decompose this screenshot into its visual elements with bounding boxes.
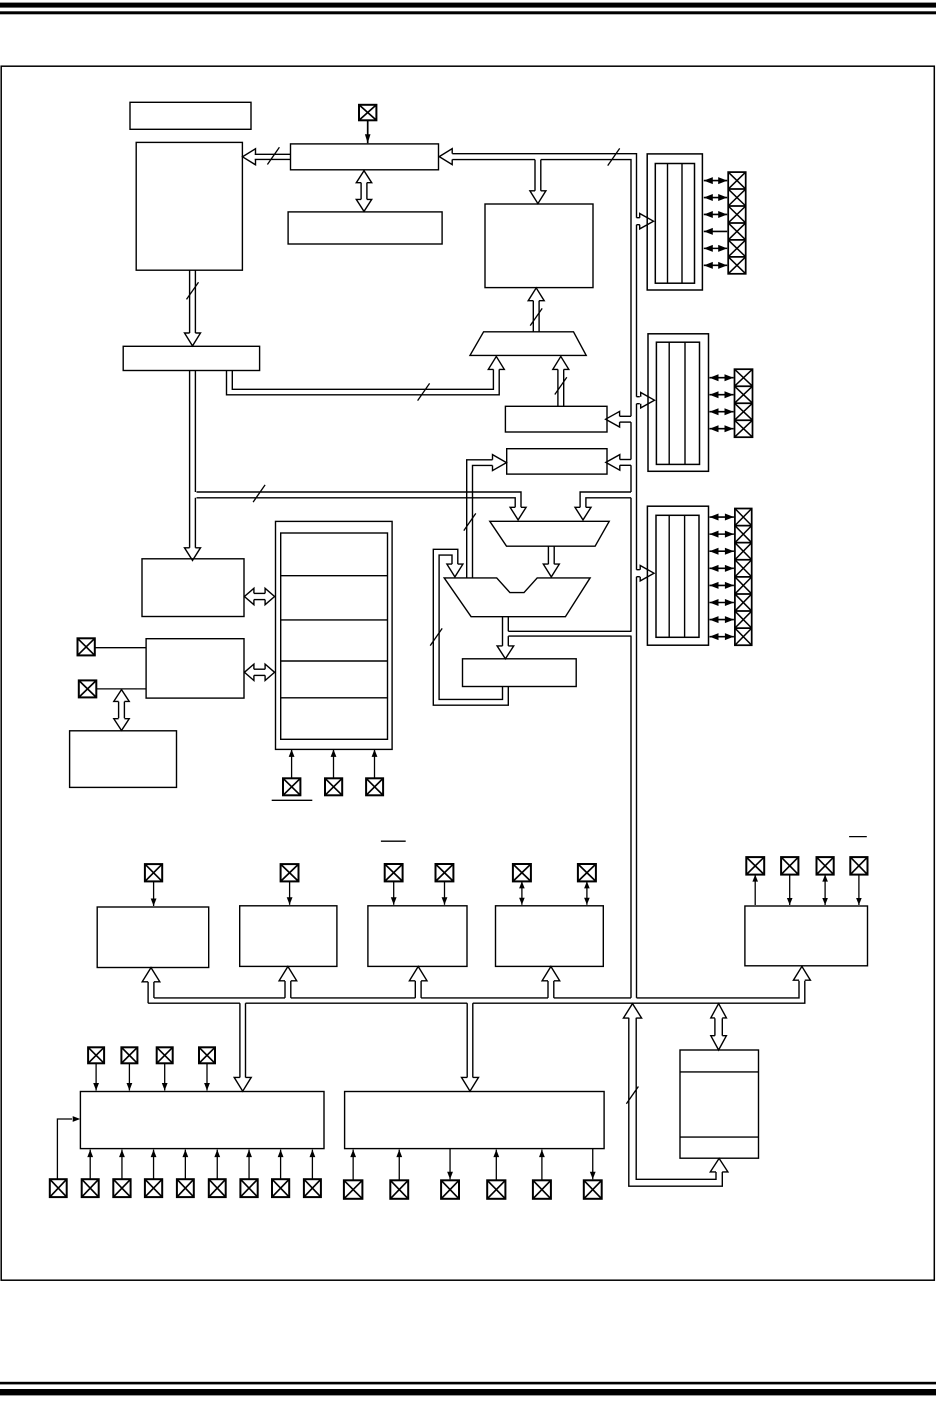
wire T1CKI pin to Timer1 — [289, 881, 291, 904]
pin below PSP 5 — [533, 1180, 551, 1199]
wire pin below PSP 4 to box (input) — [495, 1150, 497, 1181]
A/D internal divider bottom — [680, 1136, 759, 1138]
wire pin below SSP 6 to box — [248, 1150, 250, 1180]
pin below PSP 2 — [390, 1180, 408, 1199]
Timer2 / CCP box — [368, 906, 467, 967]
wire box to pin below PSP 3 (output) — [449, 1149, 451, 1180]
wire data bus into port C — [637, 569, 640, 571]
wire ALU output to data bus — [508, 630, 631, 632]
A/D result return path to data bus — [629, 1018, 723, 1186]
synchronous serial port box — [80, 1092, 324, 1149]
bidirectional arrow: program counter and stack — [360, 183, 362, 200]
port A pin arrow 3 (bidirectional) — [704, 213, 727, 215]
bus width slash 13 — [267, 147, 279, 164]
wire CCP1 pin to box (bidirectional) — [521, 881, 523, 904]
page header thick rule — [0, 3, 936, 8]
wire pin below PSP 5 to box (input) — [541, 1150, 543, 1181]
pin OSC2/CLKOUT — [79, 680, 97, 697]
wire T0CKI pin to Timer0 — [153, 881, 155, 906]
wire OSC1 pin to timing generation — [95, 647, 146, 649]
port B pin arrow 1 (bidirectional) — [710, 377, 734, 379]
pin RX/DT — [746, 857, 764, 875]
wire MCLR pin to reset block — [291, 749, 293, 778]
wire pin above SSP 2 to box — [128, 1063, 130, 1090]
wire VDD pin to reset block — [333, 749, 335, 778]
pin MCLR — [283, 778, 300, 795]
bus arrow up into USART — [793, 966, 810, 980]
timing generation box — [146, 639, 244, 698]
port C pin arrow 4 (bidirectional) — [710, 567, 734, 569]
wire pin to USART (bidirectional) — [824, 875, 826, 905]
device memory table box — [130, 102, 251, 129]
page header thin rule — [0, 11, 936, 14]
bus arrow up into Timer0 — [147, 982, 149, 1003]
pin below PSP 6 — [584, 1180, 602, 1199]
MCLR negation underline — [272, 799, 313, 801]
Timer0 box — [97, 907, 209, 968]
page footer thin rule — [0, 1382, 936, 1385]
port B inner latch box — [656, 342, 699, 464]
bidirectional arrow: instruction decode and reset block — [254, 592, 265, 594]
bus width slash 7 on indirect address — [555, 377, 567, 394]
port C pin arrow 6 (bidirectional) — [710, 601, 734, 603]
bidirectional arrow: data bus and A/D converter — [714, 1018, 716, 1035]
Flash program memory box — [136, 142, 242, 270]
bus arrow up into CCP box — [547, 981, 549, 998]
wire T1OSO pin to box — [393, 881, 395, 904]
bus width slash 14 — [187, 282, 199, 299]
port C pin arrow 7 (bidirectional) — [710, 619, 734, 621]
wire pin below SSP 7 to box — [280, 1150, 282, 1180]
pin below PSP 4 — [487, 1180, 505, 1199]
bidirectional arrow: timing generation wire and oscillator block — [118, 702, 120, 719]
data bus bottom horizontal run — [154, 981, 799, 998]
bus width slash on A/D return path — [626, 1087, 638, 1104]
pin VDD — [325, 778, 342, 795]
row divider 4 — [281, 697, 388, 699]
wire data bus to FSR register — [620, 415, 631, 417]
page footer thick rule — [0, 1389, 936, 1395]
wire pin below PSP 1 to box (input) — [352, 1150, 354, 1181]
RAM file registers box — [485, 204, 593, 288]
port C latch divider lines — [668, 515, 670, 637]
pin above SSP 1 — [88, 1047, 104, 1063]
wire USART to RX pin (output) — [754, 875, 756, 905]
port A pin arrow 5 (bidirectional) — [704, 247, 727, 249]
wire ALU to STATUS register — [467, 460, 493, 578]
A/D converter box — [680, 1050, 759, 1158]
port A latch divider lines — [667, 164, 669, 284]
wire data bus into port B — [637, 396, 640, 398]
wire data bus to ALU mux right input — [580, 492, 631, 507]
bus width slash 8 — [608, 148, 620, 165]
wire data bus to STATUS register — [620, 459, 631, 461]
wire pin below SSP 4 to box — [184, 1150, 186, 1180]
bus width slash 7 on direct address — [418, 383, 430, 400]
bus width slash 8 on W feedback loop — [430, 628, 442, 645]
pin below SSP 6 — [240, 1179, 257, 1197]
wire OSC2 pin to timing generation — [96, 688, 146, 690]
bus width slash 8 on literal wire — [253, 485, 265, 502]
bus width slash 8 on ALU-status wire — [464, 513, 476, 530]
bus arrow up into Timer2/CCP — [414, 981, 416, 998]
pin VSS — [366, 778, 383, 795]
bus branch down into parallel slave port box — [466, 1003, 468, 1077]
program counter bar — [291, 144, 439, 170]
port C inner latch box — [656, 515, 699, 637]
pin T1OSO — [385, 864, 403, 881]
wire pin below SSP 1 to box — [89, 1150, 91, 1180]
port B pin column — [735, 369, 753, 437]
wire TX pin to USART (input) — [789, 875, 791, 905]
wire ALU mux down to ALU — [547, 546, 549, 564]
reset/timer block inner box with rows: power-up timer, osc start-up timer, power-on reset, watchdog timer, brown-out reset — [281, 533, 388, 739]
program bus arrow: flash program memory down to instruction register — [189, 270, 191, 333]
instruction register bar — [123, 346, 259, 370]
pin above SSP 2 — [121, 1047, 137, 1063]
port A pin arrow 6 (bidirectional) — [704, 264, 727, 266]
ALU — [444, 578, 590, 617]
port A inner latch box — [655, 164, 694, 284]
wire instruction register down to instruction decode — [189, 371, 191, 548]
W register feedback loop to ALU mux area — [433, 549, 508, 705]
pin above SSP 3 — [157, 1047, 173, 1063]
data bus into program counter (from right) — [452, 154, 636, 998]
port A pin arrow 4 (input only) — [704, 230, 727, 232]
pin T1CKI — [281, 864, 299, 881]
bus width slash 9 on RAM address — [530, 308, 542, 325]
wire T1OSI pin to box — [444, 881, 446, 904]
wire pin to program counter bar — [367, 120, 369, 143]
pin SS input route into SSP left edge — [50, 1179, 67, 1197]
wire pin above SSP 1 to box — [95, 1063, 97, 1090]
port A pin column — [728, 172, 746, 274]
negation overline above fourth USART pin — [849, 836, 867, 838]
port B pin arrow 2 (bidirectional) — [710, 394, 734, 396]
wire pin below SSP 3 to box — [153, 1150, 155, 1180]
port C pin arrow 3 (bidirectional) — [710, 550, 734, 552]
A/D internal divider top — [680, 1071, 759, 1073]
pin T1OSI — [436, 864, 454, 881]
wire CCP2 pin to box (bidirectional) — [586, 881, 588, 904]
program bus arrow: program counter to flash program memory — [255, 153, 291, 155]
wire pin above SSP 3 to box — [164, 1063, 166, 1090]
pin below SSP 2 — [113, 1179, 130, 1197]
wire box to pin below PSP 6 (output) — [592, 1149, 594, 1180]
oscillator block box — [70, 731, 177, 788]
port A outer box — [647, 154, 702, 290]
pin below SSP 8 — [304, 1179, 321, 1197]
pin (USART input 2) — [850, 857, 867, 875]
pin CCP1 — [513, 864, 531, 881]
5-level reset/timer block outer box — [276, 521, 393, 749]
CCP1/CCP2 box — [496, 906, 604, 967]
parallel slave port box — [345, 1092, 604, 1149]
bus branch down into synchronous serial port box — [239, 1003, 241, 1077]
pin CCP2 — [578, 864, 596, 881]
bidirectional arrow: timing generation and reset block — [254, 668, 265, 670]
wire VSS pin to reset block — [374, 749, 376, 778]
FSR register box — [505, 406, 607, 432]
row divider 2 — [281, 619, 388, 621]
STATUS register box — [507, 449, 607, 474]
address mux trapezoid — [470, 332, 586, 356]
wire data bus into port A — [637, 217, 640, 219]
ALU input mux trapezoid — [490, 521, 609, 546]
wire pin below SSP 5 to box — [216, 1150, 218, 1180]
wire pin below SSP 8 to box — [311, 1150, 313, 1180]
pin below SSP 4 — [177, 1179, 194, 1197]
port C pin arrow 1 (bidirectional) — [710, 516, 734, 518]
port B outer box — [648, 334, 709, 472]
arrow ALU down to W register — [502, 617, 504, 646]
direct address wire: instruction register to address mux — [232, 369, 493, 389]
wire pin below PSP 2 to box (input) — [398, 1150, 400, 1181]
pin below PSP 3 — [441, 1180, 459, 1199]
port C pin arrow 2 (bidirectional) — [710, 533, 734, 535]
port B latch divider lines — [668, 342, 670, 464]
pin below SSP 3 — [145, 1179, 162, 1197]
wire pin above SSP 4 to box — [206, 1063, 208, 1090]
pin below SSP 5 — [209, 1179, 226, 1197]
instruction decode and control box — [142, 559, 244, 617]
pin OSC1/CLKIN — [78, 638, 95, 655]
wire pin to USART (input) — [858, 875, 860, 905]
W register box — [463, 659, 577, 687]
wire pin below SSP 2 to box — [121, 1150, 123, 1180]
negation overline above T1OSO pin — [381, 840, 406, 842]
pin below SSP 7 — [272, 1179, 289, 1197]
pin below PSP 1 — [344, 1180, 363, 1199]
pin (top, into program counter) — [359, 105, 376, 121]
pin below SSP 1 — [82, 1179, 99, 1197]
pin T0CKI — [145, 864, 162, 881]
port C pin column — [735, 509, 752, 646]
8-level stack box — [288, 212, 442, 244]
port C outer box — [647, 506, 708, 645]
port A pin arrow 1 (bidirectional) — [704, 180, 727, 182]
Timer1 box — [240, 906, 337, 967]
USART box — [745, 906, 868, 966]
port B pin arrow 3 (bidirectional) — [710, 411, 734, 413]
literal wire: instruction register branch to ALU mux — [197, 492, 522, 507]
pin (USART bidirectional) — [817, 857, 834, 875]
pin TX/CK — [781, 857, 798, 875]
indirect address arrow: FSR up to address mux — [557, 369, 559, 406]
port B pin arrow 4 (bidirectional) — [710, 428, 734, 430]
bus arrow up into Timer1 — [284, 981, 286, 998]
wire data bus branch down to RAM file registers — [534, 160, 536, 191]
port C pin arrow 5 (bidirectional) — [710, 584, 734, 586]
port A pin arrow 2 (bidirectional) — [704, 197, 727, 199]
port C pin arrow 8 (bidirectional) — [710, 636, 734, 638]
pin above SSP 4 — [199, 1047, 215, 1063]
row divider 1 — [281, 575, 388, 577]
row divider 3 — [281, 660, 388, 662]
RAM address arrow: address mux up to RAM file registers — [532, 301, 534, 332]
